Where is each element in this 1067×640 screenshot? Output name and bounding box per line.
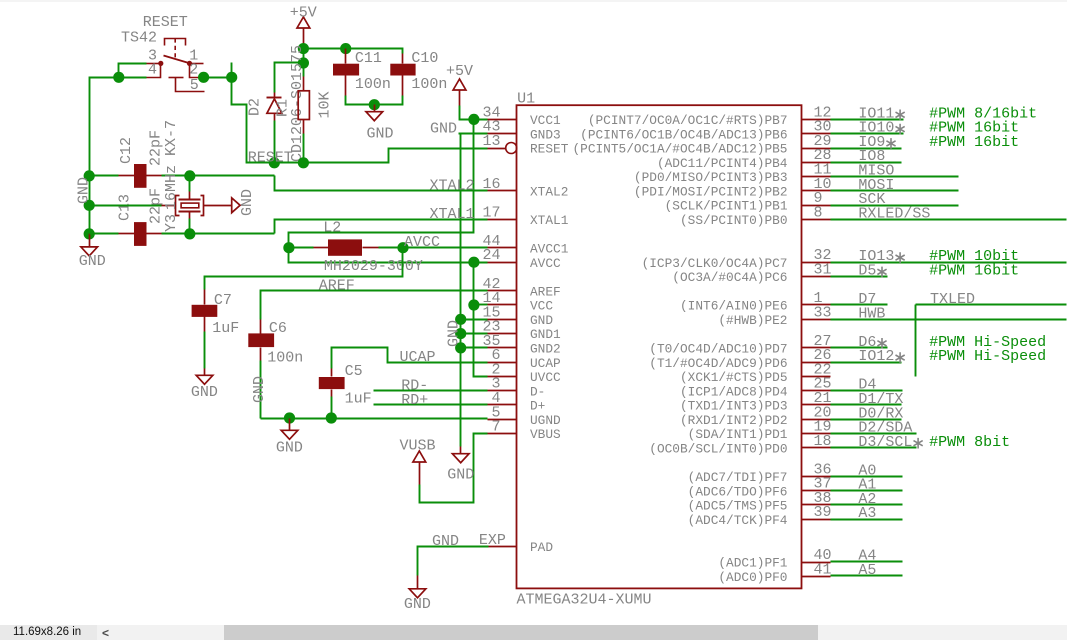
svg-text:GND: GND — [404, 596, 431, 613]
svg-text:GND: GND — [446, 320, 463, 347]
wire GND to PAD pin (EXP) — [418, 547, 489, 576]
svg-text:C7: C7 — [214, 292, 232, 309]
junction - crystal top node — [184, 170, 195, 181]
top window strip — [0, 0, 1067, 2]
wire - down into XTAL2 pin row — [275, 176, 488, 191]
U1 right pin 8 PB0 — [802, 219, 831, 221]
svg-text:(TXD1/INT3)PD3: (TXD1/INT3)PD3 — [680, 399, 788, 414]
U1 right pin 28 PB4 — [802, 162, 831, 164]
wire VBUS - pin7 elbow down to VUSB — [420, 434, 488, 503]
svg-text:C11: C11 — [355, 50, 382, 67]
wire - switch left bracket to GND rail — [119, 64, 147, 78]
U1 left pin 42 AREF — [488, 290, 517, 292]
push button S1 - pin 2 stub with tick — [190, 64, 200, 78]
svg-text:XTAL1: XTAL1 — [429, 206, 474, 223]
svg-text:(PCINT5/OC1A/#OC4B/ADC12)PB5: (PCINT5/OC1A/#OC4B/ADC12)PB5 — [572, 142, 787, 157]
svg-text:C12: C12 — [118, 137, 135, 164]
U1 left pin 2 UVCC — [488, 376, 517, 378]
wire net IO9* — [831, 148, 902, 150]
svg-text:C6: C6 — [269, 320, 287, 337]
junction - R1 bottom on RESET wire — [298, 157, 309, 168]
svg-text:AVCC: AVCC — [530, 256, 561, 271]
svg-text:16MHz KX-7: 16MHz KX-7 — [163, 120, 180, 210]
svg-text:GND3: GND3 — [530, 127, 561, 142]
svg-text:EXP: EXP — [479, 532, 506, 549]
ground symbol below C11 C10 — [374, 105, 376, 112]
wire - L2 left stub — [289, 247, 314, 249]
U1 left pin 16 XTAL2 — [488, 190, 517, 192]
svg-text:TS42: TS42 — [121, 30, 157, 47]
wire - C11 C10 bottoms joined — [346, 96, 403, 105]
U1 left pin 14 VCC — [488, 304, 517, 306]
wire net A2 — [831, 504, 903, 506]
svg-text:22pF: 22pF — [148, 130, 165, 166]
U1 right pin 38 PF5 — [802, 504, 831, 506]
ground symbol below C7 — [204, 369, 206, 376]
svg-text:1uF: 1uF — [345, 391, 372, 408]
U1 right pin 36 PF7 — [802, 476, 831, 478]
svg-text:GND: GND — [251, 376, 268, 403]
svg-text:#PWM Hi-Speed: #PWM Hi-Speed — [929, 348, 1046, 365]
wire AREF - from C6 up and right to pin42 — [261, 291, 488, 320]
wire - R1 bottom to RESET net — [303, 134, 305, 163]
U1 left pin 5 UGND — [488, 419, 517, 421]
wire - L2 left node down to AVCC pin24 row — [289, 248, 488, 263]
svg-text:GND: GND — [430, 120, 457, 137]
wire D+ to pin 4 — [374, 404, 488, 406]
U1 left pin 3 D- — [488, 390, 517, 392]
svg-text:C13: C13 — [117, 194, 134, 221]
ground symbol at rail A bottom — [460, 447, 462, 454]
wire - C13 row — [90, 233, 119, 235]
U1 right pin 31 PC6 — [802, 276, 831, 278]
svg-text:PAD: PAD — [530, 540, 553, 555]
svg-text:VCC: VCC — [530, 299, 553, 314]
junction GND pin15 — [455, 314, 466, 325]
U1 left pin 4 D+ — [488, 404, 517, 406]
svg-text:(ADC7/TDI)PF7: (ADC7/TDI)PF7 — [688, 470, 788, 485]
junction - VCC pin14 node — [468, 299, 479, 310]
svg-text:HWB: HWB — [858, 305, 885, 322]
U1 right pin 37 PF6 — [802, 490, 831, 492]
wire - left rail down to crystal area — [90, 78, 119, 176]
svg-text:A3: A3 — [858, 505, 876, 522]
U1 right pin 29 PB5 — [802, 148, 831, 150]
svg-text:10K: 10K — [317, 91, 334, 118]
svg-text:17: 17 — [482, 204, 500, 221]
svg-text:33: 33 — [814, 304, 832, 321]
wire - C13 right to crystal bottom node — [162, 233, 275, 235]
svg-text:D+: D+ — [530, 399, 545, 414]
svg-text:5: 5 — [190, 77, 199, 94]
junction - C11 top — [340, 43, 351, 54]
svg-text:31: 31 — [814, 262, 832, 279]
svg-text:8: 8 — [814, 204, 823, 221]
svg-text:VUSB: VUSB — [400, 438, 436, 455]
wire net A3 — [831, 519, 903, 521]
wire D- to pin 3 — [374, 390, 488, 392]
wire GND - GND3 pin row — [459, 133, 488, 135]
svg-text:(ADC1)PF1: (ADC1)PF1 — [718, 556, 787, 571]
svg-text:UCAP: UCAP — [400, 349, 436, 366]
wire - C7 bottom to ground — [204, 332, 206, 369]
wire - dot1 to dot2 — [303, 49, 305, 63]
ground symbol below UGND rail — [289, 419, 291, 431]
wire - C6 bottom to UGND rail — [260, 361, 262, 419]
U1 right pin 39 PF4 — [802, 519, 831, 521]
wire net A4 — [831, 561, 903, 563]
wire net D4 — [831, 390, 903, 392]
wire net RXLED/SS — [831, 219, 1067, 221]
junction - switch left — [113, 72, 124, 83]
svg-text:AREF: AREF — [530, 284, 561, 299]
svg-text:(PDI/MOSI/PCINT2)PB2: (PDI/MOSI/PCINT2)PB2 — [634, 184, 788, 199]
svg-text:AVCC1: AVCC1 — [530, 242, 569, 257]
junction - L2 left terminal — [283, 242, 294, 253]
wire - VCC node to pin — [474, 304, 488, 306]
junction - D2 bottom on RESET wire — [269, 157, 280, 168]
VUSB supply symbol — [413, 451, 426, 462]
svg-text:39: 39 — [814, 504, 832, 521]
wire GND rail down — [460, 134, 462, 447]
wire - node R down and left to C7 — [205, 248, 403, 290]
svg-text:IO12: IO12 — [858, 348, 894, 365]
svg-text:TXLED: TXLED — [930, 291, 975, 308]
U1 right pin 21 PD3 — [802, 404, 831, 406]
svg-text:AREF: AREF — [319, 278, 355, 295]
svg-text:(T0/OC4D/ADC10)PD7: (T0/OC4D/ADC10)PD7 — [649, 342, 787, 357]
svg-text:RESET: RESET — [143, 14, 188, 31]
wire UCAP - C5 top to pin 6 — [332, 348, 488, 369]
U1 left pin 17 XTAL1 — [488, 219, 517, 221]
svg-text:XTAL2: XTAL2 — [530, 184, 568, 199]
U1 right pin 22 PD5 — [802, 376, 831, 378]
svg-text:GND: GND — [432, 533, 459, 550]
U1 right pin 19 PD1 — [802, 433, 831, 435]
wire - D2 bottom to RESET net — [274, 121, 276, 163]
junction GND2 pin35 — [455, 342, 466, 353]
crystal Y3 - bottom terminal — [189, 212, 191, 219]
wire - +5V rail down to AVCC filter — [289, 120, 474, 248]
svg-text:U1: U1 — [517, 91, 535, 108]
crystal Y3 body — [179, 199, 201, 201]
svg-text:13: 13 — [482, 133, 500, 150]
svg-text:(PCINT6/OC1B/OC4B/ADC13)PB6: (PCINT6/OC1B/OC4B/ADC13)PB6 — [580, 127, 787, 142]
svg-text:UVCC: UVCC — [530, 370, 561, 385]
+5V supply symbol above R1 — [297, 17, 310, 28]
push button S1 - pin 3 stub — [147, 63, 161, 65]
svg-text:1uF: 1uF — [212, 320, 239, 337]
svg-text:(#HWB)PE2: (#HWB)PE2 — [718, 313, 787, 328]
svg-text:(RXD1/INT2)PD2: (RXD1/INT2)PD2 — [680, 413, 788, 428]
junction GND1 pin23 — [455, 328, 466, 339]
capacitor C6 — [260, 320, 262, 334]
U1 right pin 9 PB1 — [802, 205, 831, 207]
wire - dot2 to diode D2 top — [275, 63, 304, 93]
svg-text:(ADC6/TDO)PF6: (ADC6/TDO)PF6 — [688, 484, 788, 499]
wire - rail M down to VCC and UVCC — [474, 263, 488, 377]
U1 left pin 6 UCAP — [488, 362, 517, 364]
svg-text:RXLED/SS: RXLED/SS — [858, 205, 930, 222]
svg-text:VCC1: VCC1 — [530, 113, 561, 128]
svg-text:C10: C10 — [411, 50, 438, 67]
svg-text:4: 4 — [148, 62, 157, 79]
U1 left pin 13 RESET — [488, 148, 506, 150]
svg-text:Y3: Y3 — [163, 214, 180, 232]
svg-text:XTAL2: XTAL2 — [429, 177, 474, 194]
capacitor C11 — [345, 49, 347, 64]
U1 right pin 26 PD6 — [802, 362, 831, 364]
wire net D7 — [831, 304, 888, 306]
wire net IO11* — [831, 119, 904, 121]
capacitor C13 — [119, 233, 135, 235]
capacitor C12 — [119, 175, 135, 177]
wire - left rail with GND — [89, 176, 91, 234]
svg-text:(OC3A/#0C4A)PC6: (OC3A/#0C4A)PC6 — [672, 270, 787, 285]
svg-text:XTAL1: XTAL1 — [530, 213, 569, 228]
svg-text:MH2029-300Y: MH2029-300Y — [324, 258, 423, 275]
junction - VCC1 node — [468, 114, 479, 125]
svg-text:GND: GND — [76, 177, 93, 204]
crystal Y3 - left terminal from rail — [90, 205, 162, 207]
svg-text:(PD0/MISO/PCINT3)PB3: (PD0/MISO/PCINT3)PB3 — [634, 170, 788, 185]
capacitor C10 — [402, 54, 404, 64]
svg-text:#PWM 16bit: #PWM 16bit — [929, 263, 1019, 280]
wire - to pin35 — [461, 347, 488, 349]
svg-text:GND: GND — [79, 253, 106, 270]
wire net MISO — [831, 176, 959, 178]
wire - up into XTAL1 pin row — [275, 220, 488, 234]
resistor R1 body — [303, 77, 305, 91]
svg-text:100n: 100n — [355, 76, 391, 93]
svg-text:7: 7 — [491, 419, 500, 436]
wire - +5V to VCC1 pin row — [460, 106, 488, 120]
wire TXLED net — [916, 304, 1067, 306]
svg-text:UCAP: UCAP — [530, 356, 561, 371]
ground symbol below PAD wire — [417, 576, 419, 589]
svg-text:(INT6/AIN0)PE6: (INT6/AIN0)PE6 — [680, 299, 788, 314]
junction - crystal row — [84, 200, 95, 211]
U1 right pin 40 PF1 — [802, 562, 831, 564]
U1 left pin 34 VCC1 — [488, 119, 517, 121]
diode D2 symbol — [274, 93, 276, 98]
U1 right pin 25 PD4 — [802, 390, 831, 392]
svg-text:(SDA/INT1)PD1: (SDA/INT1)PD1 — [688, 427, 788, 442]
U1 right pin 18 PD0 — [802, 447, 831, 449]
svg-text:(SS/PCINT0)PB0: (SS/PCINT0)PB0 — [680, 213, 788, 228]
svg-text:UGND: UGND — [530, 413, 561, 428]
U1 right pin 20 PD2 — [802, 419, 831, 421]
U1 left pin 43 GND3 — [488, 133, 517, 135]
svg-text:(ADC0)PF0: (ADC0)PF0 — [718, 570, 787, 585]
U1 right pin 41 PF0 — [802, 576, 831, 578]
svg-text:18: 18 — [814, 433, 832, 450]
svg-text:D-: D- — [530, 384, 545, 399]
junction - C5 bottom — [326, 412, 337, 423]
svg-text:(OC0B/SCL/INT0)PD0: (OC0B/SCL/INT0)PD0 — [649, 441, 787, 456]
wire net D5* — [831, 276, 888, 278]
svg-text:(ICP3/CLK0/OC4A)PC7: (ICP3/CLK0/OC4A)PC7 — [642, 256, 788, 271]
U1 right pin 30 PB6 — [802, 133, 831, 135]
svg-text:41: 41 — [814, 561, 832, 578]
scrollbar left arrow — [102, 626, 109, 640]
junction - AVCC row node M — [468, 257, 479, 268]
wire net IO10* — [831, 133, 904, 135]
svg-text:+5V: +5V — [446, 63, 473, 80]
U1 left pin 7 VBUS — [488, 433, 517, 435]
svg-text:GND: GND — [276, 440, 303, 457]
wire net A0 — [831, 476, 903, 478]
svg-text:GND1: GND1 — [530, 327, 561, 342]
junction - pin2 node A — [198, 72, 209, 83]
wire - to pin23 — [461, 333, 488, 335]
U1 right pin 10 PB2 — [802, 190, 831, 192]
U1 left pin 15 GND — [488, 319, 517, 321]
junction - bottom rail to GND — [369, 99, 380, 110]
wire net D0/RX — [831, 419, 902, 421]
wire net IO12* — [831, 362, 902, 364]
svg-text:ATMEGA32U4-XUMU: ATMEGA32U4-XUMU — [517, 592, 652, 609]
ground symbol right of crystal (rotated) — [232, 198, 240, 213]
wire net A5 — [831, 575, 903, 577]
U1 pin PAD — [489, 546, 517, 548]
svg-text:(T1/#OC4D/ADC9)PD6: (T1/#OC4D/ADC9)PD6 — [649, 356, 787, 371]
push button S1 - pin 1 stub — [190, 63, 204, 65]
wire RESET - node B down and right to RESET label wire — [232, 78, 488, 163]
wire - C12 right to crystal top node — [162, 175, 275, 177]
svg-text:(XCK1/#CTS)PD5: (XCK1/#CTS)PD5 — [680, 370, 788, 385]
svg-text:100n: 100n — [267, 350, 303, 367]
svg-text:(ADC4/TCK)PF4: (ADC4/TCK)PF4 — [688, 513, 788, 528]
wire - L2 right to AVCC1 pin44 — [379, 247, 488, 249]
svg-text:#PWM 16bit: #PWM 16bit — [929, 134, 1019, 151]
svg-text:RESET: RESET — [530, 142, 569, 157]
push button S1 - case pin 5 bracket — [169, 77, 184, 79]
svg-text:C5: C5 — [345, 363, 363, 380]
wire - switch pin2 to node — [200, 77, 232, 79]
svg-text:(ICP1/ADC8)PD4: (ICP1/ADC8)PD4 — [680, 384, 788, 399]
status bar — [0, 625, 1067, 640]
svg-text:GND2: GND2 — [530, 342, 561, 357]
wire net HWB — [831, 319, 1067, 321]
junction - crystal bottom node — [184, 228, 195, 239]
svg-text:(ADC11/PCINT4)PB4: (ADC11/PCINT4)PB4 — [657, 156, 788, 171]
wire net A1 — [831, 490, 903, 492]
svg-text:D2: D2 — [247, 98, 264, 116]
scrollbar thumb — [224, 625, 818, 640]
wire net SCK — [831, 205, 959, 207]
U1 right pin 11 PB3 — [802, 176, 831, 178]
push button S1 - lever — [164, 56, 191, 64]
junction - node dot2 — [298, 57, 309, 68]
svg-text:R1: R1 — [275, 99, 292, 117]
U1 right pin 1 PE6 — [802, 304, 831, 306]
junction - ground stem on UGND rail — [284, 412, 295, 423]
svg-text:GND: GND — [447, 467, 474, 484]
svg-text:GND: GND — [530, 313, 553, 328]
svg-text:A5: A5 — [858, 562, 876, 579]
push button S1 - pin 4 stub with tick — [147, 64, 161, 78]
svg-text:D3/SCL: D3/SCL — [858, 434, 912, 451]
capacitor C5 — [331, 397, 333, 419]
svg-text:AVCC: AVCC — [404, 234, 440, 251]
wire net D3/SCL* — [831, 447, 917, 449]
junction - L2 right node R — [397, 242, 408, 253]
U1 left pin 35 GND2 — [488, 347, 517, 349]
wire net D2/SDA — [831, 433, 917, 435]
wire XTAL2 - C12 row to pin 16 — [90, 175, 119, 177]
U1 right pin 12 PB7 — [802, 119, 831, 121]
wire net MOSI — [831, 190, 959, 192]
+5V supply symbol near U1 — [453, 79, 466, 90]
svg-text:#PWM 8bit: #PWM 8bit — [929, 434, 1010, 451]
wire net IO8 — [831, 162, 902, 164]
junction - +5V rail node (dot1) — [298, 43, 309, 54]
junction - C12 row — [84, 170, 95, 181]
svg-text:GND: GND — [239, 189, 256, 216]
svg-text:RESET: RESET — [248, 150, 293, 167]
wire - dot2 down to R1 — [303, 63, 305, 77]
svg-text:(ADC5/TMS)PF5: (ADC5/TMS)PF5 — [688, 499, 788, 514]
U1 left pin 23 GND1 — [488, 333, 517, 335]
U1 right pin 33 PE2 — [802, 319, 831, 321]
wire net D1/TX — [831, 404, 902, 406]
IC U1 ATMEGA32U4 body — [517, 105, 802, 588]
wire - to pin15 — [461, 319, 488, 321]
svg-text:GND: GND — [191, 384, 218, 401]
crystal Y3 - case terminal to ground — [204, 205, 232, 207]
wire UGND rail - to pin 5 — [261, 418, 488, 420]
wire net IO13* — [831, 262, 1067, 264]
wire - +5V rail to C11 C10 tops — [304, 49, 403, 54]
svg-text:(SCLK/PCINT1)PB1: (SCLK/PCINT1)PB1 — [665, 199, 788, 214]
svg-text:+5V: +5V — [290, 5, 317, 22]
svg-text:VBUS: VBUS — [530, 427, 561, 442]
junction - node B — [226, 72, 237, 83]
U1 right pin 32 PC7 — [802, 262, 831, 264]
U1 right pin 27 PD7 — [802, 347, 831, 349]
wire net D6* — [831, 347, 888, 349]
svg-text:D5: D5 — [858, 263, 876, 280]
ground symbol below left rail — [89, 234, 91, 247]
svg-text:GND: GND — [367, 126, 394, 143]
svg-text:16: 16 — [482, 176, 500, 193]
junction - C13 row — [84, 228, 95, 239]
svg-text:24: 24 — [482, 247, 500, 264]
crystal Y3 - top terminal — [189, 176, 191, 192]
wire - stub up at node B — [231, 63, 233, 78]
sheet size field — [0, 625, 97, 640]
U1 left pin 24 AVCC — [488, 262, 517, 264]
push button S1 - contact dots — [158, 61, 163, 66]
U1 left pin 44 AVCC1 — [488, 247, 517, 249]
svg-text:(PCINT7/OC0A/OC1C/#RTS)PB7: (PCINT7/OC0A/OC1C/#RTS)PB7 — [588, 113, 788, 128]
svg-text:RD+: RD+ — [401, 392, 428, 409]
capacitor C7 — [204, 290, 206, 305]
push button S1 TS42 - top actuator bracket — [165, 39, 186, 46]
svg-text:L2: L2 — [323, 220, 341, 237]
svg-text:100n: 100n — [411, 76, 447, 93]
inductor L2 body MH2029-300Y — [314, 247, 329, 249]
